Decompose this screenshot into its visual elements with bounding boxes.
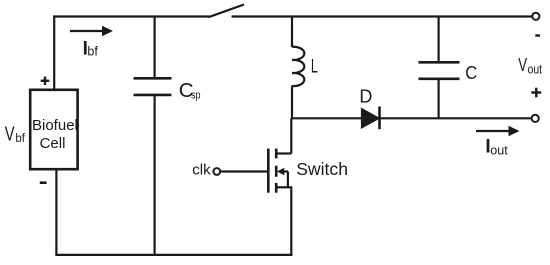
svg-text:L: L bbox=[311, 57, 318, 78]
svg-text:Biofuel: Biofuel bbox=[32, 117, 78, 134]
svg-text:D: D bbox=[359, 87, 372, 107]
svg-text:out: out bbox=[490, 142, 508, 157]
svg-text:V: V bbox=[518, 54, 527, 75]
svg-text:bf: bf bbox=[15, 133, 25, 145]
svg-text:out: out bbox=[528, 62, 543, 76]
svg-text:bf: bf bbox=[87, 44, 98, 58]
svg-text:Switch: Switch bbox=[296, 159, 348, 179]
svg-text:sp: sp bbox=[191, 89, 201, 101]
svg-text:clk: clk bbox=[192, 161, 211, 178]
svg-text:Cell: Cell bbox=[40, 135, 66, 152]
svg-text:C: C bbox=[465, 62, 477, 83]
svg-text:V: V bbox=[5, 124, 15, 146]
